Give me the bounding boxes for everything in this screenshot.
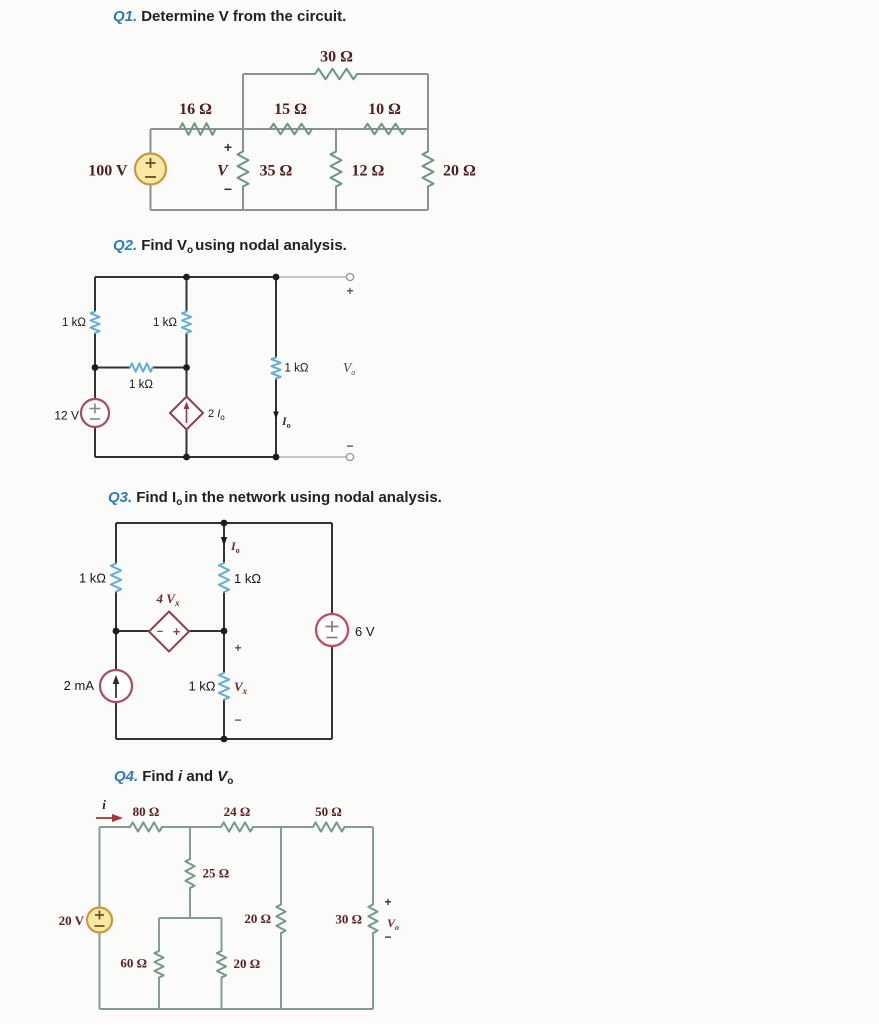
label 1 kohm q3 left: [79, 571, 106, 586]
svg-text:Vx: Vx: [234, 679, 248, 696]
label 4 Vx: [156, 591, 180, 608]
current source 2mA: [100, 670, 132, 702]
svg-text:25 Ω: 25 Ω: [203, 866, 230, 881]
wire Q1 middle rail: [151, 128, 429, 130]
wire Q4 branch B vertical: [280, 827, 282, 1009]
svg-text:6 V: 6 V: [355, 624, 375, 639]
wire Q1 branch M1 vertical: [242, 74, 244, 210]
voltage source 6V: [316, 614, 348, 646]
wire Q3 bottom rail: [116, 738, 332, 740]
svg-text:20 Ω: 20 Ω: [443, 163, 476, 180]
label 30 ohm: [320, 49, 353, 66]
svg-text:100 V: 100 V: [88, 163, 128, 180]
resistor 1k middle: [182, 312, 191, 334]
svg-text:12 V: 12 V: [54, 409, 79, 423]
svg-text:1 kΩ: 1 kΩ: [62, 317, 86, 329]
resistor 1k q3 mid top: [219, 563, 229, 592]
wire Q4 bottom rail: [100, 1008, 374, 1010]
svg-text:V: V: [217, 163, 229, 180]
label 1 kohm horizontal: [129, 379, 153, 391]
wire Q4 inner horizontal: [159, 917, 222, 919]
label 20 ohm lower: [234, 956, 261, 971]
wire Q1 left vertical bottom: [150, 185, 152, 210]
label 1 kohm right: [285, 363, 309, 375]
label 15 ohm: [274, 101, 307, 118]
svg-text:Q3.Find Ioin the network using: Q3.Find Ioin the network using nodal ana…: [108, 489, 442, 508]
wire Q2 right vertical: [275, 277, 277, 457]
label 35 ohm: [260, 163, 293, 180]
wire Q2 top lead to terminal: [276, 276, 346, 278]
svg-text:80 Ω: 80 Ω: [133, 804, 160, 819]
resistor 1k q3 left: [111, 564, 121, 592]
wire Q4 branch A vertical: [189, 827, 191, 918]
label 10 ohm: [368, 101, 401, 118]
svg-text:10 Ω: 10 Ω: [368, 101, 401, 118]
voltage source 20V: [87, 908, 112, 933]
resistor 10-ohm: [364, 124, 406, 135]
svg-text:1 kΩ: 1 kΩ: [153, 317, 177, 329]
svg-text:60 Ω: 60 Ω: [120, 956, 147, 971]
svg-text:2 mA: 2 mA: [64, 678, 95, 693]
wire Q4 inner right vertical: [221, 918, 223, 1009]
svg-text:30 Ω: 30 Ω: [320, 49, 353, 66]
wire Q3 right vertical: [331, 523, 333, 739]
resistor 25-ohm: [185, 859, 194, 888]
svg-text:+: +: [234, 641, 241, 655]
svg-text:Q2.Find Vousing nodal analysis: Q2.Find Vousing nodal analysis.: [113, 237, 347, 256]
wire Q3 left vertical: [115, 523, 117, 739]
svg-text:−: −: [157, 626, 163, 638]
wire Q4 right vertical: [372, 827, 374, 1009]
label Vo minus: [384, 930, 391, 944]
svg-text:+: +: [384, 895, 391, 909]
resistor 20-ohm upper: [276, 905, 285, 934]
label V plus: [224, 139, 232, 155]
label Vx: [234, 679, 248, 696]
label 16 ohm: [179, 101, 212, 118]
wire Q1 right vertical: [427, 74, 429, 210]
title Q4: [114, 768, 233, 787]
resistor 30-ohm: [315, 69, 357, 80]
label 100 V: [88, 163, 128, 180]
svg-text:Q4.Find i and Vo: Q4.Find i and Vo: [114, 768, 233, 787]
label 25 ohm: [203, 866, 230, 881]
resistor 80-ohm: [130, 822, 162, 831]
terminal plus: [346, 273, 353, 298]
resistor 60-ohm: [154, 951, 163, 978]
label 1 kohm q3 mid bottom: [188, 679, 215, 694]
voltage source 12V: [81, 399, 109, 427]
svg-text:1 kΩ: 1 kΩ: [129, 379, 153, 391]
svg-text:+: +: [224, 139, 232, 155]
current arrow Io: [273, 412, 290, 431]
resistor 1k horizontal: [130, 363, 153, 371]
wire Q4 left vertical: [99, 827, 101, 1009]
label 50 ohm: [315, 804, 342, 819]
label 24 ohm: [224, 804, 251, 819]
svg-text:+: +: [346, 284, 353, 298]
svg-text:1 kΩ: 1 kΩ: [234, 571, 261, 586]
wire Q1 top rail right of 30-ohm: [357, 73, 428, 75]
svg-text:24 Ω: 24 Ω: [224, 804, 251, 819]
title Q1: [113, 8, 346, 25]
label Vx minus: [234, 713, 241, 727]
label 1 kohm q3 mid top: [234, 571, 261, 586]
svg-text:−: −: [384, 930, 391, 944]
resistor 12-ohm: [331, 152, 342, 187]
wire Q3 center rail: [116, 630, 224, 632]
resistor 30-ohm: [368, 905, 377, 934]
label 12 V: [54, 409, 79, 423]
label 80 ohm: [133, 804, 160, 819]
svg-text:35 Ω: 35 Ω: [260, 163, 293, 180]
svg-text:30 Ω: 30 Ω: [335, 912, 362, 927]
svg-text:20 V: 20 V: [59, 913, 85, 928]
svg-text:Q1.Determine V from the circui: Q1.Determine V from the circuit.: [113, 8, 346, 25]
svg-text:2 Io: 2 Io: [208, 408, 225, 422]
title Q2: [113, 237, 347, 256]
resistor 20-ohm: [423, 152, 434, 187]
wire Q1 left vertical top: [150, 129, 152, 154]
resistor 1k q3 mid bottom: [219, 673, 229, 700]
svg-text:1 kΩ: 1 kΩ: [188, 679, 215, 694]
wire Q3 middle vertical: [223, 523, 225, 739]
wire Q2 middle vertical: [186, 277, 188, 457]
label Vo q4: [387, 916, 399, 932]
wire Q2 bottom lead to terminal: [276, 456, 346, 458]
dependent source 4Vx: [149, 612, 189, 652]
wire Q3 top rail: [116, 522, 332, 524]
label 1 kohm left: [62, 317, 86, 329]
wire Q4 top rail: [100, 826, 374, 828]
resistor 1k right: [271, 358, 280, 379]
resistor 20-ohm lower: [217, 951, 226, 978]
resistor 15-ohm: [270, 124, 312, 135]
resistor 50-ohm: [313, 822, 345, 831]
wire Q4 inner left vertical: [158, 918, 160, 1009]
svg-text:16 Ω: 16 Ω: [179, 101, 212, 118]
svg-text:−: −: [224, 181, 232, 197]
wire Q2 center rail: [95, 367, 187, 369]
svg-text:20 Ω: 20 Ω: [234, 956, 261, 971]
wire Q1 bottom rail: [151, 209, 429, 211]
label V minus: [224, 181, 232, 197]
junction dots Q3: [113, 520, 228, 743]
current arrow i: [96, 797, 123, 822]
label V: [217, 163, 229, 180]
svg-text:−: −: [234, 713, 241, 727]
svg-text:1 kΩ: 1 kΩ: [285, 363, 309, 375]
label 1 kohm middle: [153, 317, 177, 329]
label 20 ohm: [443, 163, 476, 180]
label Vo plus: [384, 895, 391, 909]
label 6 V: [355, 624, 375, 639]
label 12 ohm: [352, 163, 385, 180]
label 30 ohm: [335, 912, 362, 927]
svg-text:Io: Io: [281, 414, 291, 430]
label Vo: [343, 360, 355, 377]
junction dots Q2: [92, 274, 280, 461]
wire Q2 top rail: [95, 276, 276, 278]
svg-text:1 kΩ: 1 kΩ: [79, 571, 106, 586]
svg-text:−: −: [346, 439, 353, 453]
wire Q2 bottom rail: [95, 456, 276, 458]
svg-text:50 Ω: 50 Ω: [315, 804, 342, 819]
voltage source 100V: [135, 154, 166, 185]
resistor 24-ohm: [221, 822, 253, 831]
label Vx plus: [234, 641, 241, 655]
wire Q1 branch M2 vertical: [335, 129, 337, 210]
svg-text:+: +: [173, 624, 181, 639]
dependent source 2Io: [170, 397, 203, 430]
svg-text:20 Ω: 20 Ω: [244, 911, 271, 926]
svg-text:4 Vx: 4 Vx: [156, 591, 180, 608]
current arrow Io q3: [221, 537, 240, 555]
svg-text:12 Ω: 12 Ω: [352, 163, 385, 180]
label 2 Io: [208, 408, 225, 422]
label 2 mA: [64, 678, 95, 693]
svg-text:Vo: Vo: [343, 360, 355, 377]
title Q3: [108, 489, 442, 508]
label 60 ohm: [120, 956, 147, 971]
svg-text:15 Ω: 15 Ω: [274, 101, 307, 118]
terminal minus: [346, 439, 353, 461]
resistor 1k left: [90, 312, 99, 334]
label 20 ohm upper: [244, 911, 271, 926]
svg-text:i: i: [102, 797, 106, 812]
resistor 16-ohm: [180, 123, 216, 135]
label 20 V: [59, 913, 85, 928]
svg-text:Io: Io: [230, 539, 240, 555]
wire Q1 top rail left of 30-ohm: [243, 73, 315, 75]
wire Q2 left vertical: [94, 277, 96, 457]
resistor 35-ohm: [238, 152, 249, 187]
